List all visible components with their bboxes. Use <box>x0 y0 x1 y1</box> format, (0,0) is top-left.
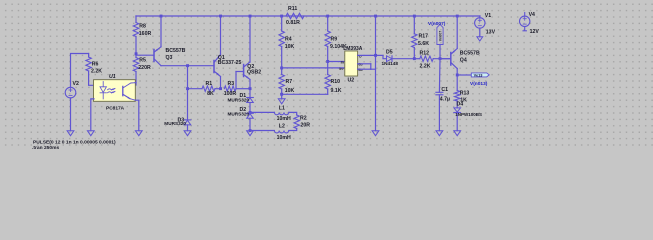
node C1 tap <box>439 57 442 60</box>
resistor R5 <box>133 54 138 85</box>
svg-text:R11: R11 <box>288 6 297 12</box>
node flag Ve13 <box>471 72 489 77</box>
svg-text:220R: 220R <box>138 65 151 71</box>
svg-text:R8: R8 <box>139 23 146 29</box>
wire rail-to-ground vertical <box>375 16 377 131</box>
svg-text:R1: R1 <box>206 81 213 87</box>
svg-text:10mH: 10mH <box>277 135 291 141</box>
svg-text:MURS320: MURS320 <box>228 111 250 116</box>
svg-text:Ve13: Ve13 <box>474 72 484 77</box>
svg-text:10mH: 10mH <box>277 116 291 122</box>
capacitor C1 <box>436 59 443 131</box>
label V1 13V <box>485 13 496 35</box>
node base net junction <box>186 64 189 67</box>
label R5 220R <box>138 57 151 71</box>
resistor R7 <box>279 75 284 95</box>
label C1 4.7u <box>440 87 450 102</box>
label PC817A <box>106 105 125 111</box>
svg-text:2.2K: 2.2K <box>420 63 431 69</box>
resistor R6 <box>86 54 94 86</box>
op-amp U2 LM393A body <box>345 51 358 76</box>
resistor R4 <box>279 16 284 75</box>
wire top supply rail <box>136 15 480 17</box>
label V(n013) <box>470 81 488 87</box>
svg-text:L2: L2 <box>279 123 285 129</box>
ground V2 <box>67 131 74 136</box>
resistor R2 <box>294 115 299 129</box>
svg-text:R10: R10 <box>331 79 341 85</box>
voltage source V2 <box>65 54 88 98</box>
wire L1 to R2 <box>289 112 297 115</box>
ground C1 <box>436 131 443 136</box>
label R8 160R <box>139 23 152 37</box>
ground V1 <box>477 37 483 41</box>
svg-text:160R: 160R <box>139 31 152 37</box>
node R7 ground tap <box>280 93 283 96</box>
wire U2 output <box>358 55 387 58</box>
svg-text:LM393A: LM393A <box>343 46 363 52</box>
diode D4 <box>454 108 461 131</box>
label R1 8K <box>206 81 214 97</box>
ground D2 chain <box>247 131 254 136</box>
wire L1 lead <box>250 111 274 113</box>
svg-text:Q4: Q4 <box>460 58 467 64</box>
svg-text:U1: U1 <box>109 74 116 80</box>
label spice directive PULSE <box>33 140 116 146</box>
label D2 MURS320 <box>228 107 250 116</box>
svg-text:BC557B: BC557B <box>460 51 480 57</box>
svg-text:100R: 100R <box>224 91 237 97</box>
svg-text:8K: 8K <box>207 91 214 97</box>
wire In+ to U2 <box>282 67 345 69</box>
label U2 pin Ob1 <box>358 63 363 67</box>
label U2 pin Ob2 <box>358 68 363 72</box>
label R17 5.6K <box>418 33 429 47</box>
label R12 2.2K <box>420 51 431 70</box>
wire V2 to ground <box>70 98 72 131</box>
op-amp U1 optocoupler body <box>94 80 136 102</box>
resistor R11 <box>286 13 304 18</box>
svg-text:R12: R12 <box>420 51 430 57</box>
svg-text:2.2K: 2.2K <box>91 69 102 75</box>
label R2 20R <box>300 115 310 128</box>
ground mid rail <box>372 131 379 136</box>
voltage source V1 <box>475 16 485 37</box>
voltage source V4 <box>520 13 530 31</box>
ground R7 <box>278 94 285 104</box>
wire In- to U2 <box>328 61 345 63</box>
svg-text:R17: R17 <box>419 33 429 39</box>
label R3 100R <box>224 81 237 97</box>
transistor Q1 <box>214 16 221 89</box>
wire R7-R10 bottom link <box>282 93 328 95</box>
inductor L1 <box>274 112 288 114</box>
svg-text:Vn007: Vn007 <box>438 31 442 42</box>
resistor R3 <box>224 86 250 91</box>
node D3 column R1 tap <box>186 87 189 90</box>
svg-text:PC817A: PC817A <box>106 105 125 111</box>
label R4 10K <box>285 36 295 50</box>
label R9 9.104K <box>330 36 347 50</box>
wire R2 to L2 <box>289 129 297 131</box>
svg-text:R2: R2 <box>300 115 307 121</box>
svg-text:Q3: Q3 <box>166 55 173 61</box>
transistor U1 photo <box>123 83 136 101</box>
resistor R13 <box>455 75 460 108</box>
svg-text:D4: D4 <box>457 102 464 108</box>
wire U1 emitter to ground <box>135 100 139 131</box>
label L2 10mH <box>277 123 291 141</box>
svg-text:BC557B: BC557B <box>166 48 186 54</box>
svg-text:V2: V2 <box>73 81 79 87</box>
ground U1 cathode <box>87 131 94 136</box>
resistor R9 <box>325 16 330 75</box>
svg-text:MURS320: MURS320 <box>164 121 186 126</box>
node R17 output junction <box>413 57 416 60</box>
wire to Ve13 flag <box>457 74 471 76</box>
label Q1 BC337-25 <box>218 55 242 66</box>
transistor Q3 <box>136 16 161 66</box>
svg-text:V4: V4 <box>529 12 535 18</box>
svg-text:L1: L1 <box>279 105 285 111</box>
svg-text:R13: R13 <box>460 90 470 96</box>
svg-text:20R: 20R <box>301 122 311 128</box>
diode D3 <box>184 120 191 131</box>
svg-text:9.1K: 9.1K <box>331 88 342 94</box>
ground U1 emitter <box>135 131 142 136</box>
node In- tap <box>326 60 329 63</box>
node L2 tap <box>249 129 252 132</box>
svg-text:13V: 13V <box>486 29 496 35</box>
label R13 1K <box>460 90 470 103</box>
label U2 pin In <box>341 60 345 64</box>
ground D4 <box>454 131 461 136</box>
wire L2 lead <box>250 130 274 132</box>
svg-text:10K: 10K <box>285 44 295 50</box>
label U2 <box>348 78 355 84</box>
svg-text:R5: R5 <box>139 57 146 63</box>
node Q2 emitter junction <box>249 87 252 90</box>
svg-text:C1: C1 <box>441 87 448 93</box>
label spice directive tran <box>32 145 59 151</box>
node R1-R3 emitter tap <box>219 87 222 90</box>
U1 coupling arrows <box>108 88 115 93</box>
node output crossing <box>374 54 377 57</box>
diode D1 <box>247 98 254 114</box>
wire U1 collector to R5 <box>134 82 137 84</box>
label Q2 QSB2 <box>247 64 261 75</box>
inductor L2 <box>274 131 288 133</box>
resistor R1 <box>202 86 221 91</box>
svg-text:R4: R4 <box>285 36 292 42</box>
svg-text:BC337-25: BC337-25 <box>218 60 242 66</box>
node rail taps <box>160 15 459 18</box>
resistor R10 <box>325 75 330 95</box>
label V(n007) <box>428 21 446 27</box>
node Q4 collector junction <box>456 74 459 77</box>
diode D2 <box>247 113 254 130</box>
label D4 <box>457 102 464 108</box>
node In+ tap <box>280 67 283 70</box>
resistor R8 <box>133 16 138 54</box>
label D3 MURS320 <box>164 117 186 126</box>
wire U1 cathode to ground <box>91 99 94 131</box>
wire R1 row left <box>188 88 203 90</box>
node flag Vn007 <box>437 24 443 58</box>
label V2 <box>73 81 79 87</box>
svg-text:V(n013): V(n013) <box>470 81 488 87</box>
node R8-R5 junction <box>135 52 138 55</box>
svg-text:.tran 250ms: .tran 250ms <box>32 145 59 150</box>
wire Q3 collector to Q1 base <box>161 65 214 67</box>
svg-text:D5: D5 <box>386 50 393 56</box>
diode D5 <box>387 56 415 62</box>
svg-text:5.6K: 5.6K <box>418 41 429 47</box>
label V4 12V <box>529 12 540 35</box>
label Q3 BC557B <box>166 48 186 61</box>
node L1 tap <box>249 111 252 114</box>
svg-text:0.81R: 0.81R <box>286 20 300 26</box>
label U2 pin O <box>359 54 362 58</box>
label Q4 BC557B <box>460 51 480 64</box>
label R7 10K <box>285 79 295 94</box>
label U2 pin In+ <box>339 67 344 71</box>
svg-text:MURS320: MURS320 <box>228 98 250 103</box>
wire D3 branch <box>187 66 189 120</box>
svg-text:4.7µ: 4.7µ <box>440 96 450 102</box>
svg-text:1NPW100BS: 1NPW100BS <box>455 112 482 117</box>
resistor R17 <box>412 16 417 59</box>
svg-text:V(n007): V(n007) <box>428 21 446 27</box>
svg-text:QSB2: QSB2 <box>247 69 261 75</box>
svg-text:1N4148: 1N4148 <box>382 61 399 66</box>
transistor Q2 <box>236 16 250 98</box>
svg-text:R9: R9 <box>331 36 338 42</box>
label U1 <box>109 74 116 80</box>
wire U2 lower pins <box>358 64 376 69</box>
svg-text:U2: U2 <box>348 78 355 84</box>
label R11 0.81R <box>286 6 300 26</box>
label R10 9.1K <box>331 79 342 94</box>
svg-text:V1: V1 <box>485 13 491 19</box>
label LM393A <box>343 46 363 52</box>
svg-text:10K: 10K <box>285 88 295 94</box>
diode U1 LED <box>100 82 106 99</box>
label R6 2.2K <box>91 62 102 75</box>
svg-text:In·: In· <box>339 67 344 71</box>
label D5 1N4148 <box>382 50 399 66</box>
transistor Q4 <box>440 16 457 75</box>
svg-text:R6: R6 <box>92 62 99 68</box>
svg-text:PULSE(0 12 0 1n 1n 0.00005 0.0: PULSE(0 12 0 1n 1n 0.00005 0.0001) <box>33 140 116 146</box>
svg-text:12V: 12V <box>530 29 540 35</box>
svg-text:R3: R3 <box>228 81 235 87</box>
label D1 MURS320 <box>228 93 250 103</box>
resistor R12 <box>414 56 451 61</box>
label L1 10mH <box>277 105 291 122</box>
svg-text:R7: R7 <box>286 79 293 85</box>
ground D3 <box>184 131 191 136</box>
label 1NPW100BS <box>455 112 482 117</box>
